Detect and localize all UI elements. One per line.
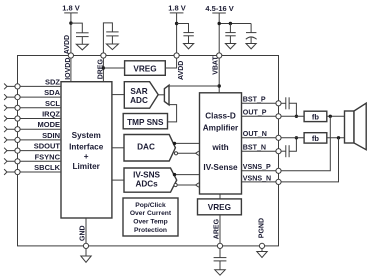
svg-text:VSNS_P: VSNS_P xyxy=(243,163,271,171)
wire VBAT sense to mux xyxy=(169,85,219,87)
wire DREG hook to cap xyxy=(103,23,112,53)
svg-text:Interface: Interface xyxy=(69,143,104,152)
wire System to SAR ADC xyxy=(112,94,124,96)
pin SBCLK xyxy=(4,163,61,175)
chip outer boundary box xyxy=(18,56,279,246)
svg-text:VREG: VREG xyxy=(133,65,156,74)
pin VSNS_N xyxy=(242,174,282,184)
pin SDIN xyxy=(4,131,61,143)
wire AVDD rail xyxy=(176,13,178,56)
svg-text:1.8 V: 1.8 V xyxy=(168,4,186,13)
junction IV-SNS input xyxy=(173,173,176,176)
svg-text:VREG: VREG xyxy=(208,203,231,212)
wire fb to speaker + xyxy=(327,115,345,117)
DAC xyxy=(124,135,175,162)
pin SDOUT xyxy=(4,142,61,154)
protection block Pop/Click Over Current Over Temp xyxy=(123,198,178,236)
svg-text:1.8 V: 1.8 V xyxy=(62,4,80,13)
junction DREG to VREG xyxy=(102,66,105,69)
svg-text:fb: fb xyxy=(312,134,319,143)
svg-text:Class-D: Class-D xyxy=(205,112,236,121)
capacitor AREG xyxy=(214,249,227,270)
svg-text:AVDD: AVDD xyxy=(178,61,185,80)
svg-text:ADCs: ADCs xyxy=(135,180,158,189)
regulator VREG (bottom) xyxy=(198,194,242,215)
pin SCL xyxy=(4,99,61,111)
pin SDZ xyxy=(4,77,61,89)
svg-text:Pop/Click: Pop/Click xyxy=(135,202,166,209)
svg-text:AREG: AREG xyxy=(213,218,220,239)
svg-text:SDIN: SDIN xyxy=(42,131,60,140)
svg-text:BST_N: BST_N xyxy=(243,144,266,152)
svg-text:VBAT: VBAT xyxy=(212,56,219,75)
junction DAC output xyxy=(173,142,176,145)
ground (AVDD cap) xyxy=(76,44,88,50)
ground (AVDD pin cap) xyxy=(184,44,194,49)
svg-text:SAR: SAR xyxy=(130,87,147,96)
amplifier Class-D with IV-Sense xyxy=(200,93,242,194)
pin GND xyxy=(80,218,89,248)
wire VSNS_N sense xyxy=(281,138,338,182)
svg-text:VSNS_N: VSNS_N xyxy=(243,174,271,182)
svg-text:AVDD: AVDD xyxy=(64,35,71,54)
pin AREG xyxy=(217,243,222,248)
sensor TMP SNS xyxy=(123,114,167,129)
wire VBAT pin to Class-D top xyxy=(218,58,220,93)
regulator VREG (top) xyxy=(125,61,166,76)
svg-text:DAC: DAC xyxy=(137,143,155,152)
junction speaker - sense xyxy=(337,136,340,139)
capacitor AVDD decoupling xyxy=(71,23,89,44)
wire VBAT cap branch xyxy=(219,23,251,25)
ADC IV-SNS xyxy=(124,168,177,192)
junction BST_N cap to OUT_N xyxy=(295,136,298,139)
wire VREG to AREG pin xyxy=(219,215,221,246)
pin OUT_N xyxy=(242,130,282,140)
svg-text:TMP SNS: TMP SNS xyxy=(127,118,164,127)
ground (DREG cap) xyxy=(106,44,118,50)
svg-text:with: with xyxy=(211,143,228,152)
mux (SAR ADC input select) xyxy=(158,85,169,105)
pin PGND xyxy=(259,218,266,249)
pin BST_N xyxy=(242,144,282,154)
pin IOVDD xyxy=(68,53,73,58)
filter fb (N) xyxy=(304,133,327,143)
pin AVDD xyxy=(174,53,179,58)
svg-text:PGND: PGND xyxy=(259,218,266,238)
wire Class-D feedback to DAC xyxy=(174,151,198,155)
svg-text:BST_P: BST_P xyxy=(243,96,266,104)
svg-text:GND: GND xyxy=(80,225,87,241)
block System Interface + Limiter xyxy=(61,82,112,218)
wire VBAT rail xyxy=(218,13,220,56)
wire mux to TMP SNS xyxy=(168,105,177,122)
speaker xyxy=(345,103,367,150)
svg-text:Over Temp: Over Temp xyxy=(133,219,167,226)
supply label 1.8 V (AVDD net) xyxy=(62,4,80,13)
wire DAC to Class-D xyxy=(175,142,200,144)
junction AVDD rail xyxy=(175,22,178,25)
capacitor VBAT bulk (polarized) xyxy=(246,24,257,44)
ground (VBAT cap1) xyxy=(225,44,235,49)
svg-text:SBCLK: SBCLK xyxy=(34,163,60,172)
svg-text:ADC: ADC xyxy=(130,96,148,105)
junction on AVDD rail xyxy=(69,21,72,24)
capacitor DREG decoupling xyxy=(106,32,118,44)
capacitor bootstrap N xyxy=(281,138,296,157)
junction VBAT sense xyxy=(218,84,221,87)
capacitor bootstrap P xyxy=(281,97,296,116)
ground (GND pin) xyxy=(81,249,91,263)
wire OUT_P to fb xyxy=(281,115,304,117)
svg-text:SCL: SCL xyxy=(45,99,60,108)
supply label 1.8 V (AVDD pin rail) xyxy=(168,4,186,13)
wire AVDD rail down to IOVDD pin xyxy=(70,13,72,56)
pin BST_P xyxy=(242,96,282,106)
pin VBAT xyxy=(217,53,222,58)
svg-text:MODE: MODE xyxy=(38,120,61,129)
svg-text:4.5-16 V: 4.5-16 V xyxy=(205,4,233,13)
svg-text:System: System xyxy=(72,131,101,140)
svg-text:SDA: SDA xyxy=(44,88,60,97)
pin IRQZ xyxy=(4,110,61,122)
wire VSNS_P sense xyxy=(281,116,330,171)
wire IV-Sense return xyxy=(174,183,199,187)
svg-text:OUT_P: OUT_P xyxy=(243,109,267,117)
pin SDA xyxy=(4,88,61,100)
pin VSNS_P xyxy=(242,163,282,173)
pin DREG xyxy=(101,53,106,58)
svg-text:Amplifier: Amplifier xyxy=(203,124,239,133)
junction speaker + sense xyxy=(329,115,332,118)
capacitor VBAT ceramic xyxy=(225,24,235,44)
wire DREG to VREG input xyxy=(103,67,124,69)
capacitor AVDD pin decoupling xyxy=(177,24,194,44)
svg-text:IV-Sense: IV-Sense xyxy=(203,163,238,172)
wire OUT_N to fb xyxy=(281,137,304,139)
svg-text:FSYNC: FSYNC xyxy=(35,152,61,161)
pin OUT_P xyxy=(242,109,282,119)
wire DREG pin into System box xyxy=(102,58,104,82)
wire VREG output to AVDD pin xyxy=(165,58,176,68)
svg-text:IV-SNS: IV-SNS xyxy=(133,171,160,180)
pin MODE xyxy=(4,120,61,132)
ground (VBAT cap2) xyxy=(246,44,256,49)
svg-text:SDZ: SDZ xyxy=(45,77,60,86)
svg-text:fb: fb xyxy=(312,112,319,121)
svg-text:Protection: Protection xyxy=(134,227,167,234)
svg-text:IRQZ: IRQZ xyxy=(42,110,60,119)
ground (PGND pin) xyxy=(257,249,267,258)
svg-text:Over Current: Over Current xyxy=(130,210,172,217)
svg-text:OUT_N: OUT_N xyxy=(243,130,267,138)
ADC SAR xyxy=(124,82,158,109)
wire IV-Sense to IV-SNS ADCs xyxy=(175,174,200,176)
supply label 4.5-16 V (VBAT rail) xyxy=(205,4,233,13)
junction VBAT rail xyxy=(218,22,221,25)
svg-text:+: + xyxy=(84,152,89,161)
wire System to DAC xyxy=(112,147,124,149)
pin FSYNC xyxy=(4,152,61,164)
ground (AREG cap) xyxy=(215,270,225,275)
junction BST_P cap to OUT_P xyxy=(295,115,298,118)
filter fb (P) xyxy=(304,111,327,121)
wire fb to speaker - xyxy=(327,137,345,139)
wire IOVDD pin to System box xyxy=(70,58,72,82)
svg-text:Limiter: Limiter xyxy=(73,162,101,171)
svg-text:SDOUT: SDOUT xyxy=(34,142,61,151)
junction VBAT cap1 xyxy=(229,22,232,25)
wire System to IV-SNS ADCs xyxy=(112,179,124,181)
